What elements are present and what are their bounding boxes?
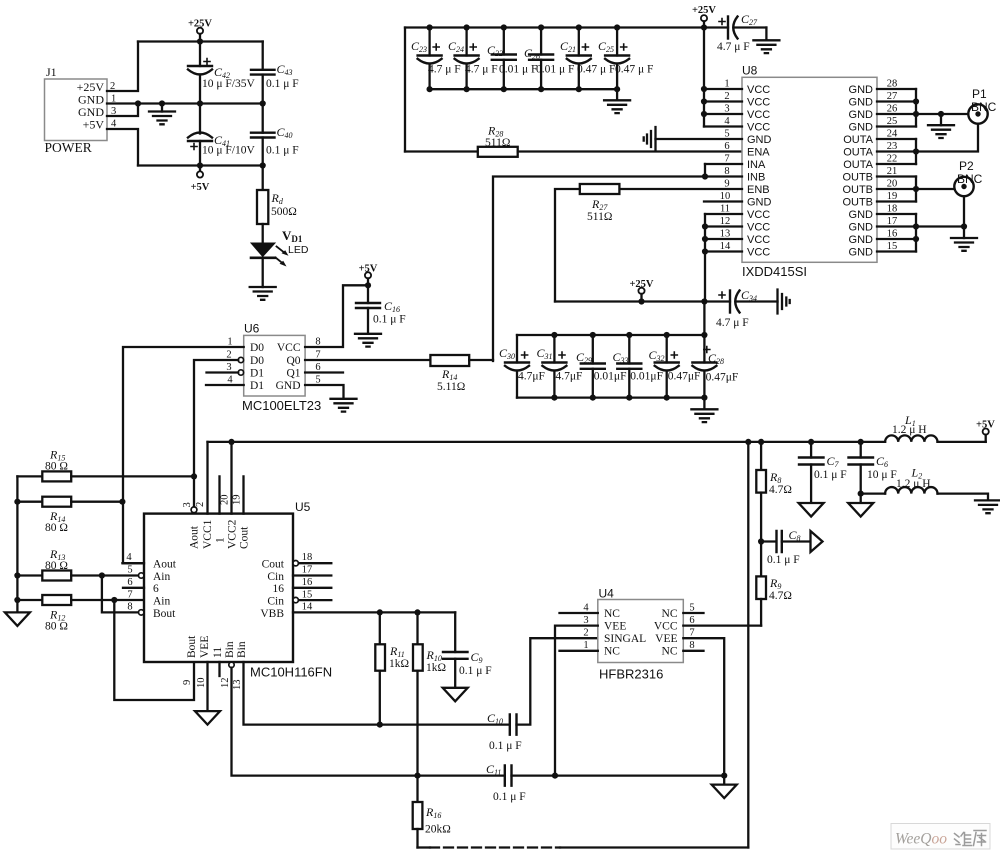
svg-text:INB: INB: [747, 172, 765, 184]
svg-text:11: 11: [720, 204, 730, 215]
wire J1 pin4 to +5V rail: [107, 129, 138, 166]
capacitor C8: [761, 528, 810, 566]
svg-text:VEE: VEE: [655, 633, 677, 645]
U5 right inside labels: [260, 559, 284, 621]
connector P2 BNC: [954, 159, 982, 196]
svg-text:80 Ω: 80 Ω: [45, 560, 68, 572]
svg-text:NC: NC: [604, 646, 620, 658]
svg-text:4.7 μ F: 4.7 μ F: [428, 64, 461, 76]
svg-text:Bout: Bout: [153, 608, 176, 620]
svg-text:3: 3: [724, 104, 729, 115]
wire U4 pin1 stub: [560, 650, 598, 652]
capacitor C9: [443, 612, 492, 687]
connector J1 box: [45, 65, 108, 155]
svg-text:10 μ F: 10 μ F: [867, 469, 897, 481]
pin bubble U5 pin8: [139, 610, 144, 615]
svg-text:7: 7: [127, 590, 132, 601]
watermark WeeQoo: [891, 824, 990, 850]
svg-text:MC100ELT23: MC100ELT23: [242, 398, 321, 413]
svg-text:GND: GND: [276, 380, 301, 392]
wire U6 pin1 D0 from U5 Aout: [123, 347, 244, 563]
svg-text:U4: U4: [599, 587, 615, 601]
junction dots VBB: [377, 609, 421, 778]
pin bubble U5 pin15: [293, 597, 298, 602]
svg-text:0.47μF: 0.47μF: [668, 371, 701, 383]
capacitor C41: [188, 104, 256, 166]
wire Ain link pin9: [114, 600, 194, 700]
node +25V top-right: [692, 5, 716, 28]
svg-text:17: 17: [887, 216, 898, 227]
U5 bottom inside labels: [186, 635, 248, 658]
svg-text:20kΩ: 20kΩ: [425, 824, 451, 836]
svg-text:GND: GND: [849, 222, 874, 234]
ground U6 pin5: [331, 399, 357, 412]
svg-text:VCC1: VCC1: [202, 519, 214, 549]
junction dots power section: [135, 38, 266, 168]
svg-text:LED: LED: [288, 244, 309, 256]
wire long right vertical: [747, 442, 749, 848]
svg-text:Aout: Aout: [153, 559, 177, 571]
wire U6 pin4 stub: [206, 384, 244, 386]
node +5V at C16: [359, 264, 378, 289]
U5 left inside labels: [153, 559, 177, 621]
U8 right junction dots: [913, 98, 967, 242]
svg-text:2: 2: [195, 502, 206, 507]
svg-text:Bin: Bin: [224, 641, 236, 658]
ground top bank: [604, 89, 630, 113]
capacitor C40: [251, 104, 299, 166]
svg-text:1: 1: [583, 640, 588, 651]
resistor R4: [257, 166, 297, 244]
ground sideways C34: [778, 290, 790, 314]
junction dots mid rail: [638, 298, 707, 304]
svg-text:OUTB: OUTB: [842, 184, 873, 196]
svg-text:10 μ F/35V: 10 μ F/35V: [202, 78, 256, 90]
svg-text:1.2 μ H: 1.2 μ H: [892, 424, 927, 436]
svg-text:Cout: Cout: [239, 526, 251, 549]
ground C27: [753, 28, 779, 54]
pin bubble U5 pin12: [229, 662, 234, 667]
svg-text:0.1 μ F: 0.1 μ F: [767, 554, 800, 566]
svg-text:8: 8: [689, 640, 694, 651]
node +25V top-left: [188, 19, 212, 42]
svg-text:ENB: ENB: [747, 184, 770, 196]
wire U5 pin19 stub: [242, 476, 244, 513]
svg-text:28: 28: [887, 79, 898, 90]
svg-text:OUTA: OUTA: [843, 159, 873, 171]
wire U5 pin12 Bin to C11: [232, 668, 505, 776]
svg-text:+5V: +5V: [191, 182, 210, 193]
svg-text:Cout: Cout: [262, 559, 285, 571]
IC U4 box: [598, 587, 684, 682]
ground arrow C6: [848, 503, 873, 517]
wire U5 pin13 Bin to C10: [244, 662, 510, 725]
wire lower bank top rail: [517, 334, 704, 336]
svg-text:6: 6: [127, 577, 132, 588]
svg-text:OUTB: OUTB: [842, 172, 873, 184]
U4 pin numbers: [583, 603, 694, 652]
svg-text:NC: NC: [662, 646, 678, 658]
capacitor C31: [537, 335, 583, 398]
wire bank feed from +25V: [703, 302, 705, 336]
svg-text:HFBR2316: HFBR2316: [599, 667, 663, 682]
capacitor C25: [598, 28, 653, 90]
svg-text:27: 27: [887, 91, 898, 102]
capacitor C6: [849, 442, 897, 503]
svg-text:13: 13: [232, 680, 243, 691]
wire U6 pin8 VCC to +5V: [305, 285, 368, 347]
svg-text:VCC: VCC: [747, 84, 770, 96]
svg-text:OUTB: OUTB: [842, 197, 873, 209]
svg-text:13: 13: [720, 229, 731, 240]
svg-text:80 Ω: 80 Ω: [45, 522, 68, 534]
svg-text:4: 4: [126, 552, 132, 563]
capacitor C32: [649, 335, 701, 398]
svg-text:7: 7: [689, 628, 694, 639]
svg-text:4.7Ω: 4.7Ω: [769, 590, 792, 602]
svg-text:511Ω: 511Ω: [587, 211, 612, 223]
resistor R9: [756, 542, 792, 626]
svg-text:VCC: VCC: [747, 247, 770, 259]
svg-text:23: 23: [887, 141, 898, 152]
svg-text:19: 19: [232, 495, 243, 506]
svg-text:6: 6: [724, 141, 729, 152]
svg-text:80 Ω: 80 Ω: [45, 621, 68, 633]
connector P1 BNC: [968, 87, 996, 124]
IC U6 box: [242, 322, 321, 414]
U6 pin labels: [250, 342, 264, 392]
svg-text:1kΩ: 1kΩ: [389, 658, 409, 670]
resistor R8: [756, 442, 792, 542]
svg-text:5.11Ω: 5.11Ω: [437, 381, 465, 393]
svg-text:VCC: VCC: [747, 209, 770, 221]
wire pin17 branch: [916, 225, 964, 227]
ground arrow left bus: [5, 612, 30, 626]
wire GND rail: [107, 102, 263, 104]
wire U8 right bus C pins 21-19: [915, 177, 917, 202]
svg-text:OUTA: OUTA: [843, 147, 873, 159]
svg-text:14: 14: [720, 241, 731, 252]
U8 right pin stubs: [877, 89, 916, 252]
svg-text:J1: J1: [46, 65, 57, 79]
U8 left junction dots: [701, 24, 708, 254]
svg-text:25: 25: [887, 116, 898, 127]
resistor R27: [555, 184, 742, 302]
ground J1: [149, 104, 175, 125]
wire U6 pin7 Q0: [305, 359, 430, 361]
svg-text:9: 9: [182, 680, 193, 685]
capacitor C21: [560, 28, 615, 90]
svg-text:19: 19: [887, 191, 898, 202]
svg-text:Ain: Ain: [153, 571, 171, 583]
ground sideways U8 pin5: [644, 127, 742, 151]
svg-text:Q1: Q1: [286, 368, 300, 380]
svg-text:20: 20: [887, 179, 898, 190]
pin bubble U5 pin18: [293, 561, 298, 566]
wire U8 right bus B pins 24-22: [915, 139, 917, 164]
svg-text:15: 15: [887, 241, 898, 252]
U5 bottom pin numbers: [182, 678, 243, 691]
svg-text:1: 1: [724, 79, 729, 90]
svg-text:16: 16: [302, 577, 313, 588]
svg-text:0.1 μ F: 0.1 μ F: [459, 665, 492, 677]
svg-text:500Ω: 500Ω: [271, 206, 297, 218]
pin bubble U6 pin2: [238, 357, 243, 362]
svg-text:21: 21: [887, 166, 898, 177]
capacitor C7: [799, 442, 847, 503]
svg-text:4.7 μ F: 4.7 μ F: [716, 317, 749, 329]
junction dots C11 net: [552, 773, 727, 779]
svg-text:0.1 μ F: 0.1 μ F: [814, 469, 847, 481]
resistor R14 80ohm: [17, 497, 122, 534]
svg-text:0.01 μ F: 0.01 μ F: [536, 64, 574, 76]
svg-text:SINGAL: SINGAL: [604, 633, 646, 645]
wire U4 pin5 stub: [683, 612, 703, 614]
svg-text:0.01μF: 0.01μF: [630, 371, 663, 383]
wire +25V mid rail: [555, 300, 730, 302]
svg-text:NC: NC: [604, 608, 620, 620]
svg-text:+5V: +5V: [976, 420, 995, 431]
wire left drop to R28: [404, 28, 406, 152]
svg-text:16: 16: [887, 229, 898, 240]
wire U6 pin2 to U5 pin3: [194, 360, 238, 506]
svg-text:11: 11: [212, 647, 224, 658]
svg-text:1kΩ: 1kΩ: [426, 662, 446, 674]
ground L2: [975, 500, 1000, 513]
svg-text:IXDD415SI: IXDD415SI: [742, 264, 807, 279]
wire J1 pin3: [107, 104, 138, 117]
pin bubble U6 pin3: [238, 370, 243, 375]
wire U6 pin6 Q1 stub: [305, 371, 343, 373]
svg-text:511Ω: 511Ω: [485, 137, 510, 149]
svg-text:VCC: VCC: [747, 234, 770, 246]
svg-text:GND: GND: [849, 97, 874, 109]
IC U5 box: [144, 500, 332, 680]
ground arrow C11: [712, 776, 737, 799]
junction dots rail: [745, 439, 864, 545]
wire to P1: [916, 113, 968, 115]
U5 top inside labels: [189, 519, 251, 549]
wire U8 right bus A pins 28-25: [915, 89, 917, 127]
ground C16: [355, 334, 381, 347]
wire Bout link pin8: [102, 576, 138, 613]
svg-text:15: 15: [302, 590, 313, 601]
svg-text:OUTA: OUTA: [843, 134, 873, 146]
svg-text:0.47 μ F: 0.47 μ F: [577, 64, 615, 76]
svg-text:10: 10: [196, 678, 207, 689]
svg-text:BNC: BNC: [957, 172, 983, 186]
svg-text:D0: D0: [250, 342, 264, 354]
svg-text:3: 3: [182, 502, 193, 507]
U5 top pin numbers: [182, 495, 243, 508]
ground arrow C7: [799, 503, 824, 517]
svg-text:POWER: POWER: [45, 140, 92, 155]
U8 right pin numbers: [887, 79, 898, 253]
wire J1 pin2 to +25V rail: [107, 42, 138, 92]
capacitor C10: [487, 638, 598, 752]
svg-text:0.1 μ F: 0.1 μ F: [266, 78, 299, 90]
J1 pin numbers: [110, 81, 117, 130]
resistor R13: [17, 547, 138, 581]
svg-text:17: 17: [302, 565, 313, 576]
U8 right pin labels: [842, 84, 873, 259]
capacitor C27: [717, 12, 766, 53]
svg-text:VCC: VCC: [747, 122, 770, 134]
svg-text:VCC2: VCC2: [227, 519, 239, 549]
ground P2: [951, 227, 977, 251]
node +5V right: [976, 420, 995, 442]
svg-text:10: 10: [720, 191, 731, 202]
svg-text:Cin: Cin: [267, 571, 284, 583]
svg-text:4.7μF: 4.7μF: [556, 371, 583, 383]
junction dots lower bank: [551, 332, 707, 401]
svg-text:ENA: ENA: [747, 147, 770, 159]
svg-text:GND: GND: [849, 234, 874, 246]
svg-text:INA: INA: [747, 159, 766, 171]
svg-text:16: 16: [273, 583, 285, 595]
svg-text:4.7Ω: 4.7Ω: [769, 484, 792, 496]
svg-text:GND: GND: [849, 209, 874, 221]
svg-text:+5V: +5V: [83, 118, 105, 132]
ground LED: [250, 287, 276, 300]
svg-text:24: 24: [887, 129, 898, 140]
svg-text:Q0: Q0: [286, 355, 300, 367]
svg-text:VEE: VEE: [199, 636, 211, 658]
svg-text:U8: U8: [742, 64, 758, 78]
svg-text:Ain: Ain: [153, 596, 171, 608]
wire top rail: [138, 40, 263, 42]
U8 left pin numbers: [720, 79, 731, 253]
resistor R28: [405, 124, 742, 157]
svg-text:GND: GND: [747, 197, 772, 209]
U8 left pin stubs: [704, 89, 742, 252]
wire U8 pin7 INA link: [704, 164, 706, 177]
wire left bus: [16, 476, 18, 612]
LED VD1: [251, 228, 309, 287]
wire INB long: [493, 177, 742, 362]
svg-text:2: 2: [583, 628, 588, 639]
U8 left pin labels: [747, 84, 772, 259]
svg-text:4.7 μ F: 4.7 μ F: [717, 41, 750, 53]
wire U4 pin8 stub: [683, 650, 703, 652]
wire top bank +25V rail: [405, 26, 728, 28]
svg-text:0.1 μ F: 0.1 μ F: [493, 791, 526, 803]
wire to P2: [916, 188, 955, 190]
svg-text:D1: D1: [250, 380, 264, 392]
svg-text:1: 1: [215, 537, 227, 543]
capacitor C34: [716, 288, 778, 329]
wire lower bank bottom rail: [517, 396, 704, 398]
ground arrow VEE: [195, 711, 220, 725]
svg-text:0.01 μ F: 0.01 μ F: [499, 64, 537, 76]
svg-text:80 Ω: 80 Ω: [45, 461, 68, 473]
wire C6 to L2: [861, 492, 885, 494]
wire U8 right bus D pins 18-15: [915, 214, 917, 252]
U5 right pin stubs: [293, 563, 331, 600]
IC U8 IXDD415SI box: [742, 64, 877, 280]
ground arrow C9: [443, 688, 468, 702]
pin bubble U5 pin3: [191, 507, 197, 513]
capacitor C30: [499, 335, 545, 398]
svg-text:14: 14: [302, 602, 313, 613]
svg-text:Bin: Bin: [236, 641, 248, 658]
svg-text:22: 22: [887, 154, 898, 165]
wire U4 pin6 VCC to R9: [683, 624, 761, 626]
svg-text:18: 18: [887, 204, 898, 215]
svg-text:3: 3: [583, 615, 588, 626]
capacitor C29: [576, 335, 626, 398]
capacitor C11: [486, 762, 724, 803]
svg-text:NC: NC: [662, 608, 678, 620]
junction dots top bank: [427, 24, 621, 92]
wire top bank gnd rail: [430, 88, 617, 90]
capacitor C22: [487, 28, 537, 90]
node +25V mid: [629, 279, 653, 302]
svg-text:P1: P1: [972, 87, 987, 101]
svg-text:GND: GND: [849, 247, 874, 259]
svg-text:0.47 μ F: 0.47 μ F: [615, 64, 653, 76]
wire U5 pin2 VCC1 to rail: [206, 442, 208, 514]
wire P1 to OUTA bus: [916, 124, 978, 152]
svg-text:GND: GND: [849, 84, 874, 96]
wire U5 pin10 VEE: [206, 662, 208, 711]
svg-text:MC10H116FN: MC10H116FN: [250, 665, 332, 680]
svg-text:8: 8: [127, 602, 132, 613]
svg-text:6: 6: [689, 615, 694, 626]
svg-text:6: 6: [153, 583, 159, 595]
svg-text:18: 18: [302, 552, 313, 563]
ground P1: [928, 114, 954, 138]
wire U8 VCC bus pins 11-14: [704, 214, 706, 302]
pin bubble U5 pin5: [139, 573, 144, 578]
svg-text:VCC: VCC: [747, 109, 770, 121]
junction dot U5 pin20 rail: [228, 439, 234, 445]
U5 left pin numbers: [126, 552, 132, 613]
U6 pin numbers: [226, 337, 320, 386]
wire U4 pin7 VEE down: [683, 638, 724, 775]
svg-text:12: 12: [720, 216, 731, 227]
svg-text:GND: GND: [849, 122, 874, 134]
svg-text:20: 20: [220, 495, 231, 506]
svg-text:VBB: VBB: [260, 608, 284, 620]
inductor L2: [885, 466, 988, 501]
svg-text:4.7μF: 4.7μF: [518, 371, 545, 383]
capacitor C16: [356, 285, 406, 334]
capacitor C28: [692, 335, 738, 398]
svg-text:12: 12: [220, 678, 231, 689]
svg-text:GND: GND: [747, 134, 772, 146]
svg-text:D0: D0: [250, 355, 264, 367]
wire U6 pin5 GND: [305, 385, 343, 399]
resistor R16: [413, 776, 451, 848]
wire U8 VCC bus pins 1-4 from +25V: [703, 28, 705, 127]
svg-text:26: 26: [887, 104, 898, 115]
wire U5 pin1 stub: [218, 476, 220, 513]
wire U5 pin20 VCC2 to rail: [230, 442, 232, 514]
inductor L1: [885, 413, 986, 442]
svg-text:BNC: BNC: [971, 100, 997, 114]
svg-text:0.01μF: 0.01μF: [594, 371, 627, 383]
capacitor C23: [411, 28, 461, 90]
svg-text:0.1 μ F: 0.1 μ F: [489, 740, 522, 752]
capacitor C24: [448, 28, 498, 90]
svg-text:GND: GND: [849, 109, 874, 121]
svg-text:0.1 μ F: 0.1 μ F: [373, 314, 406, 326]
svg-text:2: 2: [724, 91, 729, 102]
svg-text:U6: U6: [244, 322, 260, 336]
wire P2 to pin17 row: [963, 196, 965, 226]
wire U5 pin14 VBB: [293, 611, 455, 613]
